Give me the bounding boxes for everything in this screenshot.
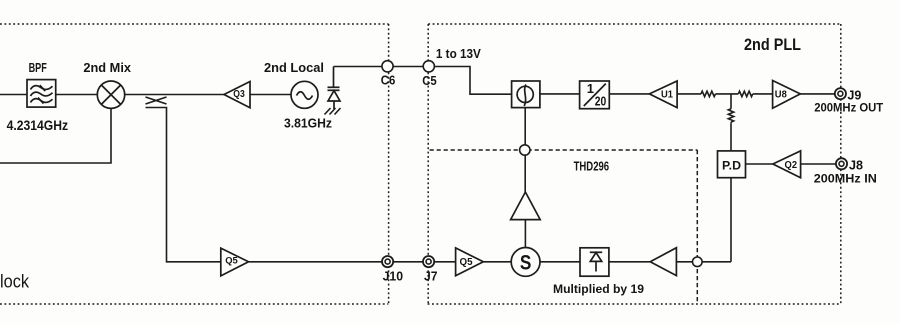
connector J7 — [423, 256, 434, 267]
bandpass filter BPF — [27, 80, 56, 108]
wire C6 to C5 — [393, 66, 423, 68]
connector J8 — [836, 158, 847, 169]
amplifier U8 — [773, 81, 801, 109]
svg-text:200MHz OUT: 200MHz OUT — [814, 100, 884, 114]
wire VCO to divider — [540, 93, 580, 95]
wire Q2 to J8 — [801, 163, 836, 165]
svg-text:2nd PLL: 2nd PLL — [744, 36, 801, 54]
connector J10 — [382, 256, 393, 267]
amplifier Q5 second — [456, 248, 484, 276]
mixer 2nd Mix — [97, 81, 124, 108]
svg-text:P.D: P.D — [722, 158, 741, 172]
wire R2 to U8 — [753, 93, 773, 95]
wire SRD to amp — [609, 261, 650, 263]
node on THD296 edge right — [693, 257, 703, 267]
dashed inner box THD296 module — [430, 150, 698, 304]
wire P.D down to feedback line — [730, 178, 732, 262]
wire Q3 to 2nd Local oscillator — [250, 94, 291, 96]
svg-text:2nd Local: 2nd Local — [264, 60, 324, 75]
label 1/20 — [587, 81, 607, 109]
svg-text:J10: J10 — [383, 268, 404, 283]
amplifier feedback pointing left — [650, 248, 676, 276]
phase detector P.D — [718, 151, 746, 178]
coupling cross symbol on tap — [146, 97, 167, 104]
svg-text:2nd Mix: 2nd Mix — [83, 60, 131, 75]
wire Q5 to mixer S — [483, 261, 511, 263]
svg-text:J7: J7 — [424, 268, 438, 283]
wire J10 to J7 — [393, 261, 423, 263]
oscillator VCO U phase box — [512, 81, 540, 108]
wire buffer to mixer S — [524, 220, 526, 248]
svg-text:lock: lock — [0, 272, 30, 292]
wire RF input to BPF — [0, 94, 27, 96]
svg-text:Q5: Q5 — [460, 257, 473, 268]
mixer S sampler — [511, 248, 540, 277]
step recovery diode box — [580, 248, 609, 276]
svg-text:4.2314GHz: 4.2314GHz — [7, 118, 69, 133]
node on THD296 edge top — [520, 145, 530, 155]
ground — [325, 108, 341, 115]
svg-text:1 to 13V: 1 to 13V — [436, 46, 481, 61]
wire amp to node — [676, 261, 692, 263]
amplifier U1 — [649, 81, 677, 108]
svg-text:C6: C6 — [381, 74, 396, 88]
wire U1 to resistor — [677, 93, 701, 95]
varactor diode D1 tuning — [328, 67, 341, 110]
amplifier Q5 first — [221, 248, 249, 276]
svg-text:200MHz IN: 200MHz IN — [814, 172, 877, 186]
connector J9 — [835, 88, 846, 99]
svg-text:C5: C5 — [422, 74, 437, 88]
wire C5 to VCO — [434, 67, 511, 95]
dashed enclosure box left section (cut off at left edge) — [0, 24, 389, 304]
svg-text:U8: U8 — [775, 90, 787, 101]
wire Q5 to J10 — [249, 261, 383, 263]
wire node up to P.D — [702, 261, 731, 263]
resistor R3 — [728, 109, 733, 122]
wire R3 to phase detector — [730, 123, 732, 151]
svg-text:Q5: Q5 — [225, 256, 238, 267]
amplifier buffer pointing up — [511, 192, 541, 220]
svg-text:1: 1 — [587, 81, 594, 96]
amplifier Q3 — [224, 82, 250, 108]
wire divider to U1 — [609, 93, 649, 95]
wire U8 to J9 — [800, 93, 835, 95]
svg-text:J8: J8 — [849, 157, 863, 172]
wire tap down to amplifier Q5 — [146, 108, 221, 262]
wire node to buffer amp — [524, 155, 526, 192]
svg-text:20: 20 — [595, 94, 607, 109]
wire R1 through junction to R2 — [716, 93, 739, 95]
wire P.D to Q2 — [746, 163, 773, 165]
wire J7 to Q5 second — [434, 261, 455, 263]
wire VCO down to node — [524, 108, 526, 145]
svg-text:3.81GHz: 3.81GHz — [284, 115, 332, 130]
wire BPF to mixer — [56, 94, 98, 96]
wire mixer to Q3 — [125, 94, 224, 96]
wire mixer S to SRD — [540, 261, 580, 263]
svg-text:Q2: Q2 — [785, 160, 798, 171]
dashed enclosure box 2nd PLL — [428, 24, 841, 304]
svg-text:Multiplied by 19: Multiplied by 19 — [553, 282, 644, 296]
svg-text:THD296: THD296 — [574, 160, 610, 174]
wire junction down to R3 — [730, 94, 732, 109]
wire mixer IF output down and left — [0, 108, 111, 163]
svg-text:U1: U1 — [661, 90, 673, 101]
amplifier Q2 — [773, 151, 801, 178]
resistor R1 — [701, 91, 716, 96]
node C5 — [423, 61, 434, 72]
wire tuning line varactor to C6 — [334, 66, 382, 68]
node C6 — [382, 61, 393, 72]
oscillator 2nd Local — [291, 81, 318, 108]
svg-text:Q3: Q3 — [233, 89, 245, 100]
svg-text:BPF: BPF — [29, 60, 47, 75]
svg-text:S: S — [520, 251, 532, 274]
divider 1/20 — [580, 81, 610, 109]
resistor R2 — [738, 91, 752, 96]
